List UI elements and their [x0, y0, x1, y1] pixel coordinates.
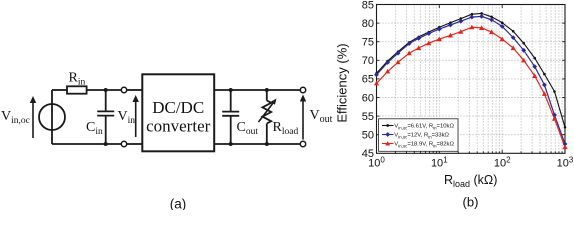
- svg-text:DC/DC: DC/DC: [152, 98, 204, 117]
- svg-text:65: 65: [362, 74, 374, 86]
- svg-text:Vin,oc: Vin,oc: [1, 109, 30, 126]
- svg-text:(b): (b): [463, 195, 479, 210]
- svg-text:Vin,oc=18.9V, Rin=82kΩ: Vin,oc=18.9V, Rin=82kΩ: [394, 142, 454, 149]
- svg-text:Vin: Vin: [118, 109, 136, 126]
- svg-text:102: 102: [494, 155, 511, 169]
- svg-text:101: 101: [431, 155, 448, 169]
- svg-text:(a): (a): [170, 197, 187, 211]
- svg-text:55: 55: [362, 111, 374, 123]
- svg-text:70: 70: [362, 55, 374, 67]
- svg-text:Cin: Cin: [86, 120, 103, 137]
- svg-text:50: 50: [362, 130, 374, 142]
- svg-text:Vin,oc=6.61V, Rin=10kΩ: Vin,oc=6.61V, Rin=10kΩ: [394, 124, 454, 131]
- svg-text:Efficiency (%): Efficiency (%): [335, 43, 350, 122]
- svg-text:80: 80: [362, 18, 374, 30]
- svg-text:Rload (kΩ): Rload (kΩ): [444, 173, 497, 189]
- svg-text:75: 75: [362, 37, 374, 49]
- svg-text:85: 85: [362, 0, 374, 11]
- svg-text:100: 100: [368, 155, 385, 169]
- svg-text:103: 103: [557, 155, 574, 169]
- svg-text:Rin: Rin: [69, 71, 86, 88]
- svg-text:Cout: Cout: [237, 120, 259, 137]
- svg-text:Vout: Vout: [310, 108, 333, 125]
- svg-text:60: 60: [362, 92, 374, 104]
- svg-text:Rload: Rload: [273, 120, 299, 137]
- svg-text:Vin,oc=12V, Rin=33kΩ: Vin,oc=12V, Rin=33kΩ: [394, 133, 449, 140]
- svg-text:converter: converter: [146, 117, 211, 136]
